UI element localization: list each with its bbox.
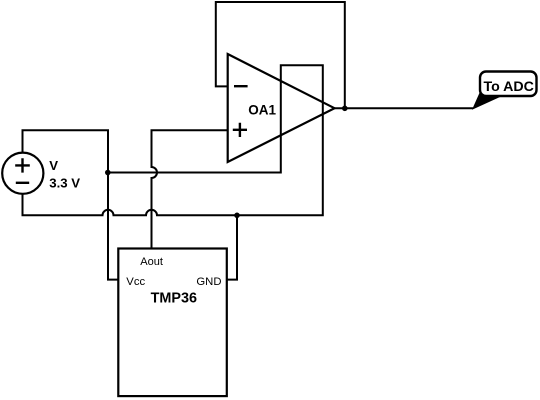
TMP36 box [118, 249, 227, 397]
junction dot A (V+ rail) [105, 170, 111, 176]
svg-text:TMP36: TMP36 [151, 291, 197, 307]
wire feedback loop: output node up over top to inverting input [216, 2, 345, 108]
voltage source plus symbol [15, 158, 30, 172]
wire V+ branch loop: junction right, up, right, down to bottom rail, left with hops, up to source bottom [23, 65, 323, 215]
To ADC callout box [480, 72, 537, 97]
To ADC callout tail [474, 94, 502, 109]
junction dot C (op-amp output node) [342, 106, 348, 112]
svg-text:To ADC: To ADC [483, 79, 533, 95]
junction dot B (ground rail / GND riser) [234, 213, 240, 219]
wire output to ADC [335, 107, 474, 109]
wire GND riser [227, 215, 237, 279]
voltage source minus symbol [16, 182, 29, 184]
svg-text:OA1: OA1 [248, 102, 276, 117]
op-amp OA1 triangle [228, 54, 335, 162]
svg-text:3.3 V: 3.3 V [49, 176, 80, 191]
op-amp minus symbol [234, 85, 248, 87]
svg-text:GND: GND [196, 276, 221, 288]
svg-text:Aout: Aout [140, 256, 163, 268]
op-amp plus symbol [233, 123, 247, 137]
wire V+ top: source top terminal right then down to Vcc [23, 130, 119, 279]
wire Aout riser with hop, to non-inverting input [152, 130, 228, 248]
svg-text:V: V [49, 158, 58, 173]
voltage source V circle [2, 153, 43, 194]
svg-text:Vcc: Vcc [126, 276, 145, 288]
